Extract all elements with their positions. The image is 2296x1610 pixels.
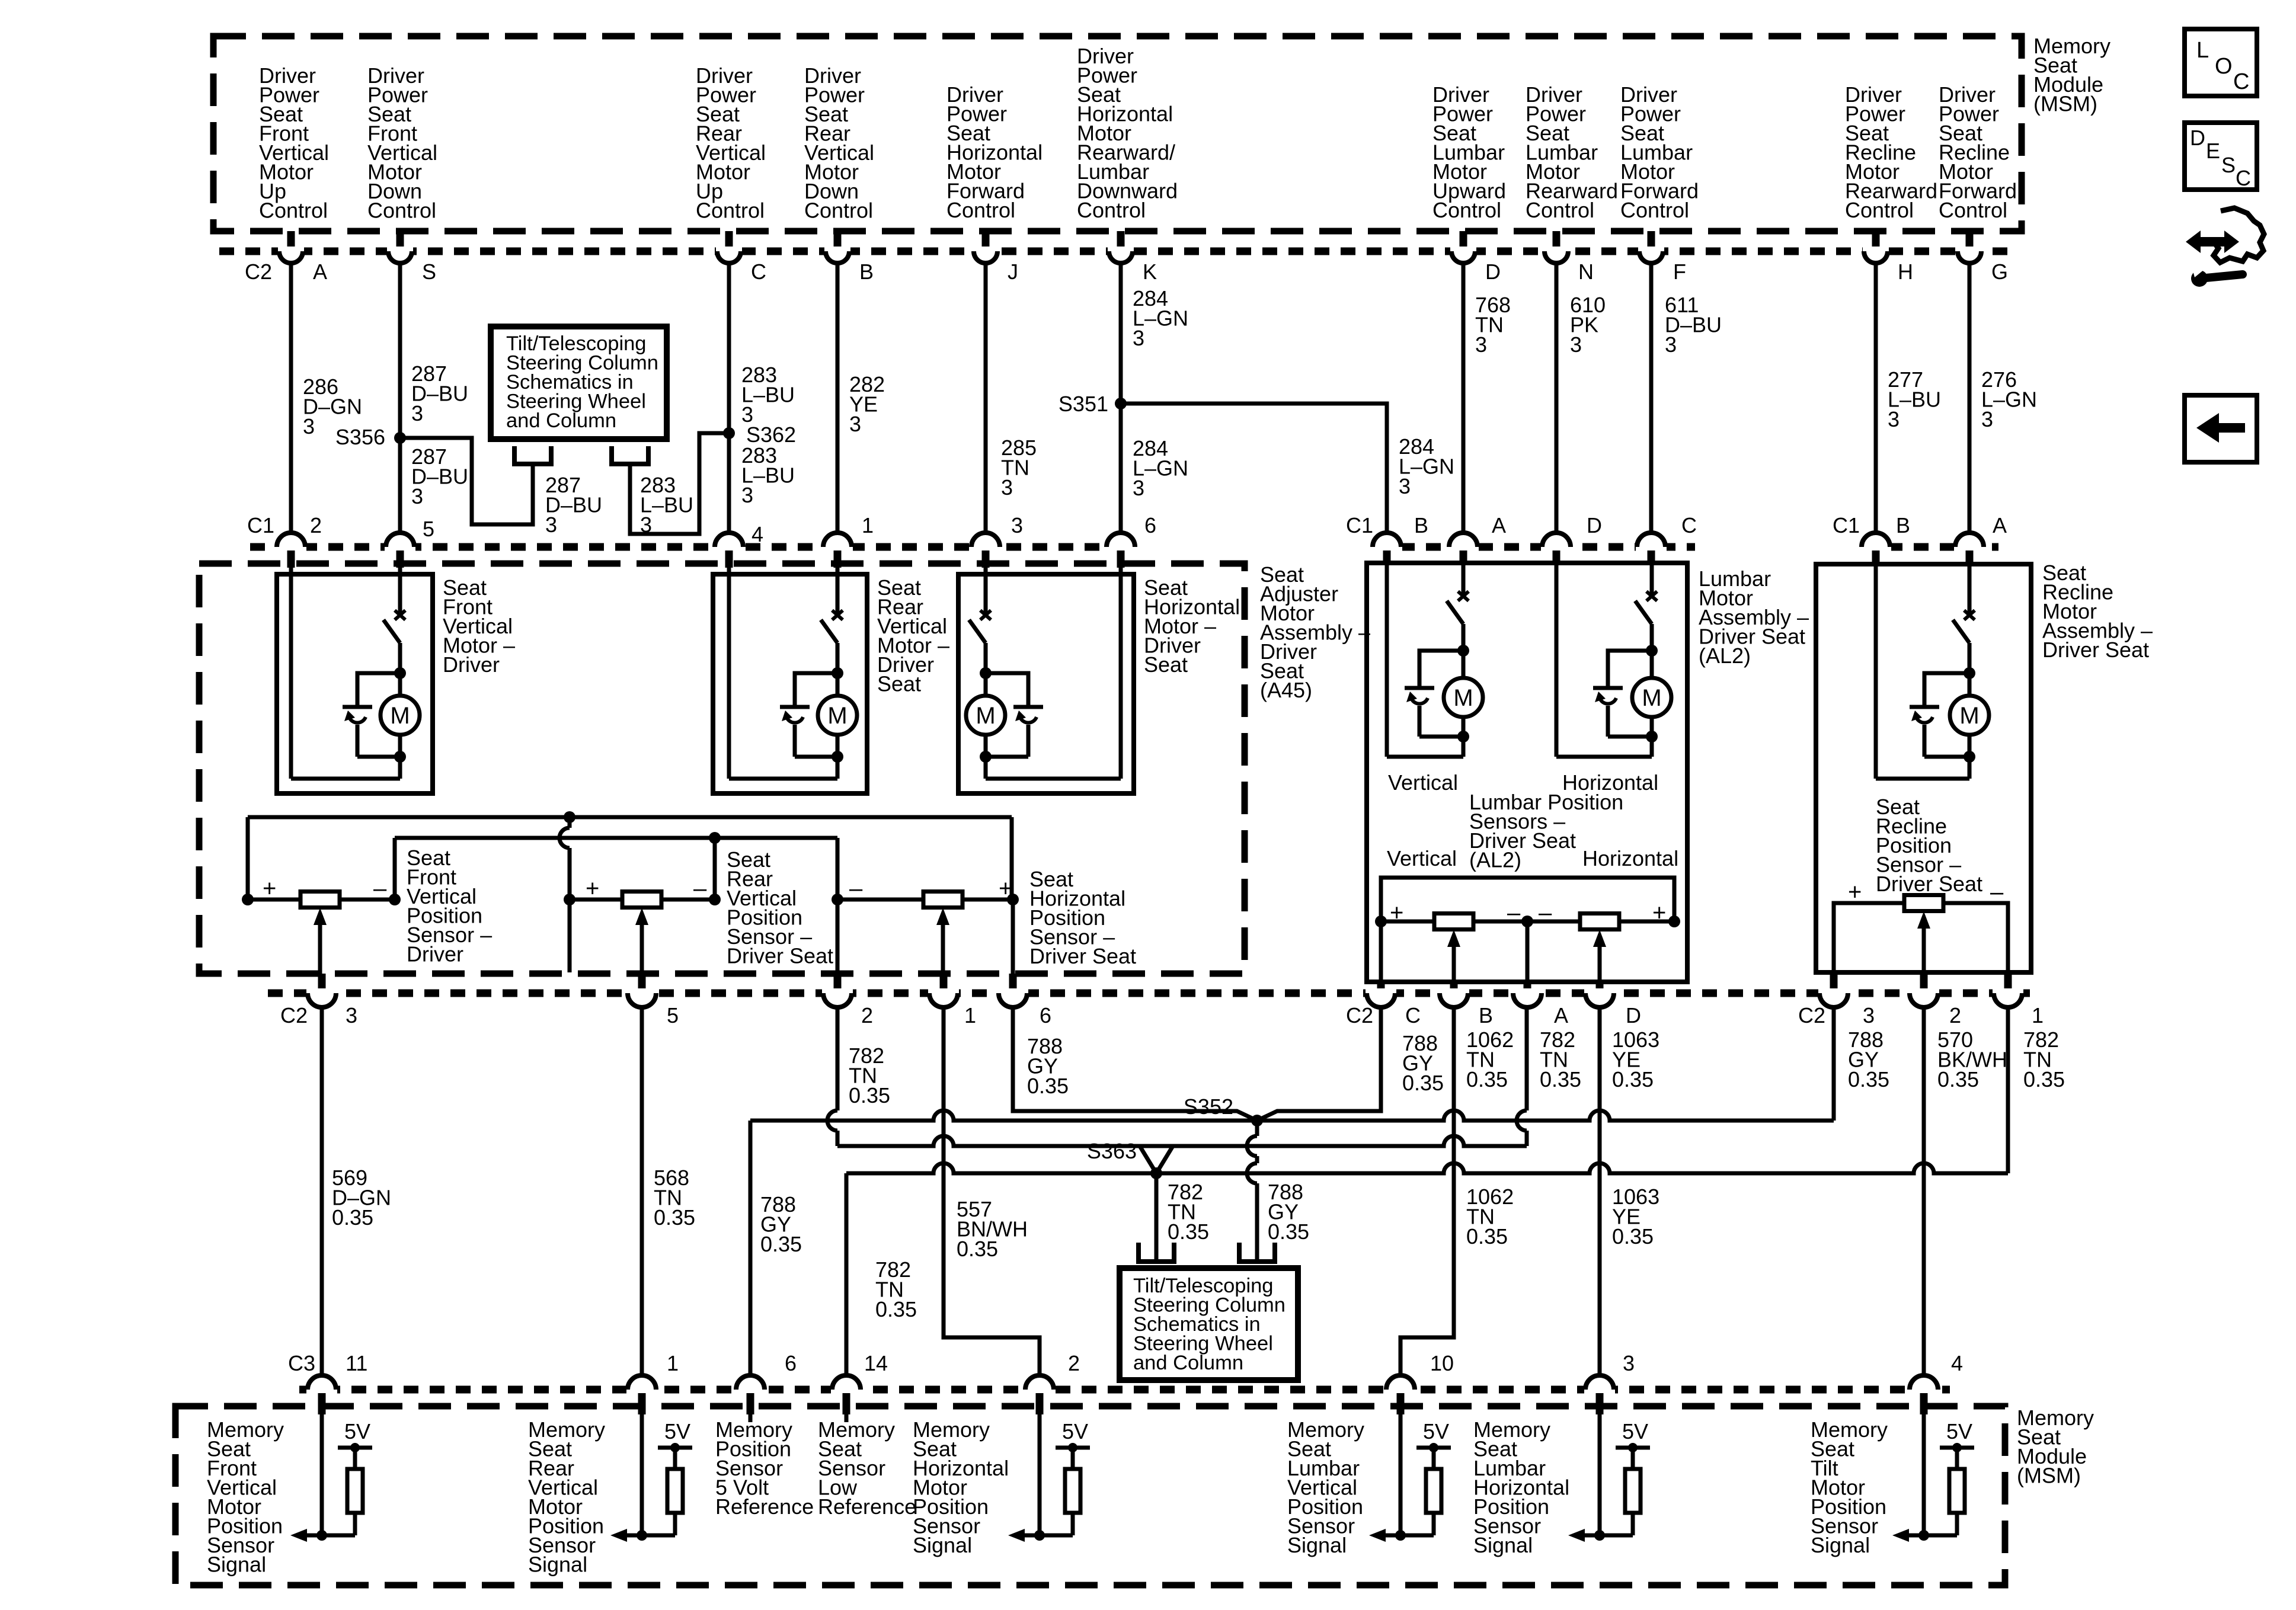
svg-text:0.35: 0.35 <box>875 1297 917 1321</box>
pin C3-3 <box>1584 1385 1615 1394</box>
wire bus2 right drop to pot3 minus <box>836 838 840 900</box>
svg-text:11: 11 <box>346 1351 367 1375</box>
svg-text:3: 3 <box>1570 332 1582 357</box>
svg-text:Reference: Reference <box>818 1494 916 1519</box>
pin C2-C <box>725 231 733 249</box>
svg-text:A: A <box>1492 513 1506 537</box>
sensor pot row wires <box>248 898 300 902</box>
wire 282 YE (B to C1-1) <box>836 263 840 533</box>
motor lumbar vertical <box>1462 564 1466 598</box>
svg-text:2: 2 <box>1068 1351 1080 1375</box>
svg-text:L: L <box>2196 38 2209 63</box>
wire 782 TN drop to C3-14 <box>845 1173 849 1375</box>
wire 782 TN (C2-1 recline to line C) <box>2006 1007 2010 1173</box>
svg-text:0.35: 0.35 <box>1168 1219 1209 1244</box>
svg-text:(AL2): (AL2) <box>1699 644 1751 668</box>
pin C3-2 <box>1024 1385 1055 1394</box>
svg-text:M: M <box>1453 685 1473 711</box>
svg-text:5V: 5V <box>1946 1419 1972 1443</box>
svg-text:–: – <box>693 876 707 902</box>
pin C1-1 <box>822 542 853 552</box>
pin C1-D <box>1541 542 1572 552</box>
svg-text:1: 1 <box>2032 1003 2044 1028</box>
wire 286 D-GN (A to C1-2) <box>289 263 293 533</box>
svg-text:S: S <box>2221 153 2236 177</box>
svg-text:0.35: 0.35 <box>849 1083 890 1108</box>
svg-text:1: 1 <box>667 1351 679 1375</box>
svg-text:6: 6 <box>785 1351 797 1375</box>
pin C1-5 <box>385 542 415 552</box>
wire 768 TN (D to C1-A) <box>1462 263 1466 533</box>
wire C3-14 low reference stub <box>845 1414 849 1422</box>
svg-text:5V: 5V <box>344 1419 370 1443</box>
svg-text:3: 3 <box>1133 476 1144 500</box>
svg-text:0.35: 0.35 <box>1937 1067 1979 1092</box>
svg-text:A: A <box>1554 1003 1568 1028</box>
svg-text:+: + <box>999 876 1012 902</box>
svg-text:C2: C2 <box>245 260 272 284</box>
svg-text:Signal: Signal <box>1811 1533 1870 1557</box>
connector C2 dotted line (sensors) <box>268 990 2039 997</box>
svg-text:A: A <box>313 260 327 284</box>
svg-text:C2: C2 <box>280 1003 308 1028</box>
svg-text:Signal: Signal <box>528 1553 587 1577</box>
svg-text:Control: Control <box>1432 198 1501 222</box>
wire bus1 right drop to pot3 plus <box>1010 817 1014 900</box>
wire 276 L-GN (G to C1-A recline) <box>1968 263 1972 533</box>
wire 557 BN/WH (C2-1 to C3-2) <box>944 1007 1040 1375</box>
node bus2-pot2 junction <box>709 832 721 844</box>
svg-text:6: 6 <box>1144 513 1156 537</box>
wire 287 D-BU S356 to steering column connector <box>400 438 533 524</box>
node S356 <box>394 432 406 444</box>
pin C2-H <box>1872 231 1880 249</box>
pin C2-2 (sensor row) <box>834 974 842 991</box>
wire 782 TN S363 to steering column <box>1155 1173 1159 1262</box>
wire 287 D-BU (S to C1-5) <box>398 263 402 533</box>
svg-text:14: 14 <box>864 1351 888 1375</box>
svg-text:Driver: Driver <box>443 652 500 677</box>
pin C2-3 (sensor row) <box>1830 972 1838 991</box>
wire 1063 YE (C2-D to C3-3) <box>1598 1007 1602 1375</box>
icon back arrow box <box>2185 395 2257 462</box>
potentiometer Seat Rear Vertical Position Sensor <box>622 892 661 908</box>
svg-text:B: B <box>859 260 874 284</box>
wire C3-11 signal into MSM <box>320 1414 324 1535</box>
svg-text:3: 3 <box>1011 513 1023 537</box>
svg-text:C1: C1 <box>247 513 274 537</box>
svg-text:3: 3 <box>640 513 652 537</box>
svg-text:3: 3 <box>849 412 861 436</box>
pin C2-K <box>1117 231 1125 249</box>
Memory Seat Module (MSM) bottom box <box>175 1406 2005 1585</box>
svg-text:0.35: 0.35 <box>1612 1067 1654 1092</box>
svg-text:Driver Seat: Driver Seat <box>1029 944 1136 968</box>
node lumbar pot junctions <box>1375 916 1387 927</box>
svg-text:6: 6 <box>1040 1003 1051 1028</box>
svg-text:3: 3 <box>545 513 557 537</box>
svg-text:F: F <box>1673 260 1686 284</box>
svg-text:Driver Seat: Driver Seat <box>1876 872 1982 896</box>
wire 782 TN line C <box>846 1163 2008 1173</box>
svg-text:(A45): (A45) <box>1260 678 1312 702</box>
svg-text:C2: C2 <box>1346 1003 1373 1028</box>
svg-text:Control: Control <box>1077 198 1146 222</box>
wire 782 TN line B <box>837 1136 1527 1146</box>
svg-text:and Column: and Column <box>1133 1352 1243 1374</box>
svg-text:0.35: 0.35 <box>1466 1067 1508 1092</box>
svg-text:and Column: and Column <box>506 409 616 432</box>
wire 285 TN (J to C1-3) <box>984 263 988 533</box>
pin C2-F <box>1648 231 1655 249</box>
svg-text:C3: C3 <box>288 1351 315 1375</box>
svg-text:2: 2 <box>310 513 322 537</box>
steering column bracket left (bottom) <box>1136 1243 1141 1262</box>
wire lumbar pot row <box>1381 920 1434 924</box>
wire lumbar plus to C2-C <box>1379 921 1383 982</box>
pin C2-1 (sensor row) <box>2004 972 2012 991</box>
motor recline <box>1968 566 1972 617</box>
wire C3-3 signal into MSM <box>1598 1414 1602 1535</box>
svg-text:–: – <box>373 876 387 902</box>
Tilt/Telescoping Steering Column box (top) <box>491 327 667 439</box>
svg-text:4: 4 <box>752 522 763 546</box>
svg-text:Control: Control <box>946 198 1015 222</box>
svg-text:S351: S351 <box>1059 392 1108 416</box>
svg-text:0.35: 0.35 <box>1402 1071 1444 1095</box>
steering column connector bracket right <box>609 446 614 464</box>
svg-text:Control: Control <box>1939 198 2007 222</box>
node S352 <box>1251 1115 1263 1126</box>
Tilt/Telescoping Steering Column box (bottom) <box>1120 1268 1298 1380</box>
svg-text:0.35: 0.35 <box>1848 1067 1889 1092</box>
wire 1062 TN (C2-B to C3-10) <box>1400 1007 1454 1375</box>
Lumbar Motor Assembly box (AL2) <box>1367 563 1687 982</box>
pin C3-14 <box>831 1385 862 1394</box>
pin C2-C (sensor row) <box>1377 982 1385 991</box>
pin C2-G <box>1966 231 1974 249</box>
wire recline pot row <box>1834 903 1904 970</box>
svg-text:Seat: Seat <box>1144 652 1188 677</box>
svg-text:5: 5 <box>667 1003 679 1028</box>
wire bus1 drop to pot2 plus with hop <box>568 817 572 828</box>
wire C3-2 signal into MSM <box>1038 1414 1042 1535</box>
wire 277 L-BU (H to C1-B recline) <box>1874 263 1878 533</box>
svg-text:5V: 5V <box>664 1419 690 1443</box>
svg-text:D: D <box>1587 513 1602 537</box>
pin C1-4 <box>714 542 744 552</box>
Seat Adjuster Motor Assembly dashed box (A45) <box>199 564 1245 974</box>
wire 284 L-GN (K to C1-6) <box>1119 263 1123 533</box>
svg-text:M: M <box>1959 703 1979 729</box>
pin C2-D (sensor row) <box>1596 982 1604 991</box>
wire 611 D-BU (F to C1-C) <box>1649 263 1654 533</box>
motor M3 Seat Horizontal Motor - Driver Seat <box>958 574 1134 793</box>
svg-text:3: 3 <box>1475 332 1487 357</box>
svg-text:(MSM): (MSM) <box>2017 1464 2081 1488</box>
pin C3-1 <box>626 1385 657 1394</box>
svg-text:3: 3 <box>1981 407 1993 431</box>
svg-text:Control: Control <box>367 199 436 223</box>
pin C2-6 (sensor row) <box>1009 974 1017 991</box>
wire 788 GY from C2-6 to S352 <box>1013 1007 1257 1121</box>
wire pot2 minus riser <box>713 838 717 900</box>
svg-text:0.35: 0.35 <box>760 1232 802 1256</box>
svg-text:–: – <box>1507 900 1521 926</box>
motor lumbar horizontal <box>1650 564 1654 598</box>
svg-text:Signal: Signal <box>1473 1533 1533 1557</box>
svg-text:Control: Control <box>259 199 328 223</box>
pin C2-B <box>834 231 842 249</box>
wire 284 L-GN S351 to lumbar C1-B <box>1121 404 1387 533</box>
svg-text:5V: 5V <box>1062 1419 1088 1443</box>
svg-text:C: C <box>1681 513 1697 537</box>
potentiometer Seat Recline Position Sensor <box>1904 895 1943 911</box>
connector C3 dotted line <box>299 1386 1950 1394</box>
pin C3-6 <box>735 1385 766 1394</box>
pin C1-3 <box>970 542 1001 552</box>
svg-text:10: 10 <box>1430 1351 1454 1375</box>
svg-text:D: D <box>1626 1003 1641 1028</box>
pin C1-2 <box>276 542 306 552</box>
pin C2-5 (sensor row) <box>638 974 646 991</box>
steering column connector bracket left <box>512 446 517 464</box>
svg-text:–: – <box>849 876 863 902</box>
wire pot3 minus to C2-2 <box>836 900 840 974</box>
svg-text:E: E <box>2206 139 2220 163</box>
wire pot3 plus to C2-6 <box>1011 900 1015 974</box>
icon LOC box <box>2185 29 2257 96</box>
svg-text:3: 3 <box>1623 1351 1635 1375</box>
svg-text:1: 1 <box>862 513 874 537</box>
pin C2-B (sensor row) <box>1450 982 1458 991</box>
svg-text:+: + <box>586 876 599 902</box>
svg-text:Vertical: Vertical <box>1388 770 1458 795</box>
svg-text:4: 4 <box>1951 1351 1963 1375</box>
svg-text:K: K <box>1143 260 1157 284</box>
node bus1-pot2 junction <box>564 811 575 823</box>
svg-text:Control: Control <box>1845 198 1914 222</box>
pin C1-B <box>1371 542 1402 552</box>
svg-text:C2: C2 <box>1798 1003 1825 1028</box>
connector C2 dotted line (MSM top) <box>219 248 2017 255</box>
svg-text:M: M <box>1642 685 1661 711</box>
svg-text:S352: S352 <box>1184 1094 1233 1119</box>
svg-text:Reference: Reference <box>715 1494 814 1519</box>
wire 782 TN from C2-2 to line B <box>836 1007 840 1110</box>
svg-text:C: C <box>1405 1003 1421 1028</box>
svg-text:3: 3 <box>1665 332 1677 357</box>
svg-text:C1: C1 <box>1346 513 1373 537</box>
wire C3-1 signal into MSM <box>640 1414 644 1535</box>
svg-text:Driver: Driver <box>407 942 463 966</box>
wire 788 GY drop to C3-6 <box>749 1121 753 1375</box>
svg-text:Driver Seat: Driver Seat <box>727 944 833 968</box>
svg-text:0.35: 0.35 <box>957 1237 998 1261</box>
svg-text:M: M <box>976 703 995 729</box>
svg-text:+: + <box>1848 879 1862 905</box>
wire 610 PK (N to C1-D) <box>1555 263 1559 533</box>
svg-text:0.35: 0.35 <box>1466 1224 1508 1249</box>
pin C2-A (sensor row) <box>1524 982 1531 991</box>
svg-text:5V: 5V <box>1622 1419 1648 1443</box>
wire 788 GY S352 to steering column with hops <box>1255 1121 1259 1136</box>
pin C1-B <box>1860 542 1891 552</box>
node S363 <box>1150 1167 1162 1179</box>
svg-text:3: 3 <box>1399 474 1411 498</box>
svg-text:+: + <box>1390 900 1403 926</box>
wire 782 TN (C2-A to line B riser) <box>1525 1007 1529 1110</box>
svg-text:N: N <box>1578 260 1594 284</box>
wire 569 D-GN (C2-3 to C3-11) <box>320 1007 324 1375</box>
wire 283 L-BU S362 to steering column connector <box>630 433 729 534</box>
svg-text:0.35: 0.35 <box>1027 1074 1069 1098</box>
svg-text:0.35: 0.35 <box>1612 1224 1654 1249</box>
svg-text:S363: S363 <box>1087 1139 1137 1163</box>
svg-text:+: + <box>1652 900 1666 926</box>
motor M1 Seat Front Vertical Motor - Driver <box>277 574 433 793</box>
svg-text:C1: C1 <box>1833 513 1860 537</box>
wire 283 L-BU (C to C1-4) <box>727 263 731 533</box>
svg-text:Signal: Signal <box>913 1533 972 1557</box>
svg-text:Control: Control <box>804 199 873 223</box>
svg-text:(MSM): (MSM) <box>2033 92 2097 116</box>
node S362 <box>723 427 735 439</box>
potentiometer Lumbar Vertical Position Sensor <box>1434 914 1473 930</box>
pin C2-S <box>396 231 404 249</box>
svg-text:Seat: Seat <box>877 672 921 696</box>
svg-text:J: J <box>1008 260 1018 284</box>
potentiometer Seat Front Vertical Position Sensor <box>300 892 340 908</box>
steering column bracket right (bottom) <box>1237 1243 1242 1262</box>
resistor 5V pullup (pin 3) <box>1616 1446 1650 1450</box>
resistor 5V pullup (pin 2) <box>1056 1446 1090 1450</box>
splice S363 jumpers to line B <box>1140 1146 1156 1173</box>
svg-text:0.35: 0.35 <box>1268 1219 1309 1244</box>
svg-text:Control: Control <box>696 199 765 223</box>
svg-text:–: – <box>1990 879 2004 905</box>
icon jumper double arrow with car outline and wrench <box>2214 208 2264 263</box>
connector C1 dotted line segments <box>250 543 1134 551</box>
wire C3-6 5V reference stub <box>749 1414 753 1422</box>
pin C3-10 <box>1385 1385 1416 1394</box>
wire 568 TN (C2-5 to C3-1) <box>640 1007 644 1375</box>
icon DESC box <box>2185 123 2257 190</box>
pin C1-A <box>1954 542 1985 552</box>
pin C1-C <box>1636 542 1667 552</box>
svg-text:G: G <box>1991 260 2008 284</box>
svg-text:3: 3 <box>411 401 423 425</box>
svg-text:C: C <box>2236 166 2251 190</box>
svg-text:H: H <box>1898 260 1913 284</box>
svg-text:0.35: 0.35 <box>654 1205 695 1230</box>
wire 5V bus (sensor plus bus) <box>248 815 1012 820</box>
svg-text:–: – <box>1539 900 1552 926</box>
svg-text:Signal: Signal <box>1287 1533 1347 1557</box>
resistor 5V pullup (pin 4) <box>1940 1446 1974 1450</box>
svg-text:Vertical: Vertical <box>1387 846 1457 870</box>
pin C1-A <box>1448 542 1479 552</box>
node S351 <box>1115 398 1127 409</box>
svg-text:1: 1 <box>964 1003 976 1028</box>
svg-text:Horizontal: Horizontal <box>1582 846 1678 870</box>
Seat Recline Motor Assembly box <box>1816 564 2031 972</box>
svg-text:3: 3 <box>1133 326 1144 350</box>
pin C2-N <box>1553 231 1560 249</box>
svg-text:3: 3 <box>303 414 315 438</box>
svg-text:3: 3 <box>1888 407 1900 431</box>
svg-text:2: 2 <box>1949 1003 1961 1028</box>
svg-text:3: 3 <box>411 484 423 508</box>
pin C2-1 (sensor row) <box>940 974 948 991</box>
svg-text:Control: Control <box>1526 198 1594 222</box>
svg-text:+: + <box>263 876 276 902</box>
svg-text:C: C <box>751 260 766 284</box>
pin C2-A <box>287 231 295 249</box>
pin C2-3 (sensor row) <box>318 974 326 991</box>
svg-text:M: M <box>390 703 410 729</box>
svg-text:S356: S356 <box>335 425 385 449</box>
svg-text:B: B <box>1414 513 1428 537</box>
pin C2-D <box>1460 231 1467 249</box>
svg-text:D: D <box>2190 126 2205 150</box>
potentiometer Seat Horizontal Position Sensor <box>923 892 962 908</box>
wire 788 GY from C2-C lumbar to S352 <box>1257 1007 1381 1121</box>
wire lumbar sensor 5V loop <box>1381 878 1674 921</box>
svg-text:Driver Seat: Driver Seat <box>2042 638 2149 662</box>
svg-text:3: 3 <box>346 1003 357 1028</box>
Memory Seat Module (MSM) top box <box>213 36 2022 231</box>
wire 788 GY 5V reference line A <box>750 1110 1834 1121</box>
svg-text:0.35: 0.35 <box>332 1205 373 1230</box>
svg-text:B: B <box>1479 1003 1493 1028</box>
svg-text:5V: 5V <box>1423 1419 1449 1443</box>
svg-text:Control: Control <box>1620 198 1689 222</box>
svg-text:0.35: 0.35 <box>1540 1067 1581 1092</box>
svg-text:O: O <box>2215 54 2233 79</box>
wire C3-4 signal into MSM <box>1922 1414 1926 1535</box>
svg-text:B: B <box>1896 513 1910 537</box>
motor M2 Seat Rear Vertical Motor - Driver Seat <box>713 574 867 793</box>
svg-text:3: 3 <box>1001 475 1013 500</box>
svg-text:Signal: Signal <box>207 1553 266 1577</box>
wire C3-10 signal into MSM <box>1399 1414 1403 1535</box>
svg-text:3: 3 <box>1863 1003 1875 1028</box>
svg-text:M: M <box>827 703 847 729</box>
wire lumbar minus to C2-A <box>1526 921 1530 982</box>
resistor 5V pullup (pin 1) <box>658 1446 692 1450</box>
svg-text:A: A <box>1993 513 2007 537</box>
node pot row junctions <box>242 894 254 905</box>
wire 570 BK/WH (C2-2 recline to C3-4) <box>1922 1007 1926 1375</box>
pin C2-J <box>982 231 990 249</box>
svg-text:2: 2 <box>861 1003 873 1028</box>
pin C2-2 (sensor row) <box>1920 972 1928 991</box>
svg-text:D: D <box>1485 260 1501 284</box>
svg-text:S: S <box>422 260 436 284</box>
potentiometer Lumbar Horizontal Position Sensor <box>1580 914 1619 930</box>
resistor 5V pullup (pin 11) <box>338 1446 372 1450</box>
svg-text:C: C <box>2233 69 2249 94</box>
svg-text:3: 3 <box>741 483 753 507</box>
pin C3-11 <box>306 1385 337 1394</box>
wire low-ref bus (sensor minus bus) <box>395 836 837 840</box>
wire 788 GY (C2-3 recline to line A) <box>1832 1007 1836 1121</box>
pin C1-6 <box>1105 542 1136 552</box>
resistor 5V pullup (pin 10) <box>1416 1446 1451 1450</box>
wire bus1 left drop to pot1 plus <box>246 817 250 900</box>
svg-text:(AL2): (AL2) <box>1469 848 1521 872</box>
